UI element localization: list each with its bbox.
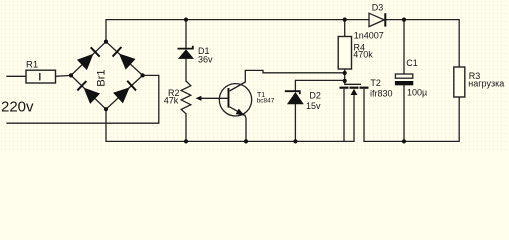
wire bottom rail right to R3 <box>364 97 459 141</box>
node C1 top rail <box>402 18 406 22</box>
svg-text:36v: 36v <box>198 55 213 65</box>
bridge rectifier Br1 diamond <box>71 42 143 110</box>
wire R1 to bridge left node <box>56 74 72 77</box>
wire T1 collector to node A <box>245 70 344 82</box>
svg-text:D2: D2 <box>309 90 321 100</box>
wire node A to node B (R4 bottom) <box>344 69 346 81</box>
resistor R1 <box>26 60 56 84</box>
MOSFET T2 ifr830 <box>340 78 393 141</box>
svg-text:220v: 220v <box>1 98 34 115</box>
wire T1 base to R2 wiper arrow <box>201 97 228 99</box>
transistor T1 bc847 <box>219 82 274 116</box>
svg-text:ifr830: ifr830 <box>370 88 393 98</box>
svg-text:T2: T2 <box>370 78 381 88</box>
bridge diode top-left <box>77 47 100 70</box>
node D2 bottom rail <box>293 139 297 143</box>
svg-text:47k: 47k <box>164 95 179 105</box>
svg-text:bc847: bc847 <box>257 97 275 104</box>
wire C1 top <box>403 20 405 74</box>
node bridge bottom <box>104 107 108 111</box>
node B gate junction <box>343 79 347 83</box>
svg-text:Br1: Br1 <box>96 69 108 86</box>
bridge diode bottom-left <box>77 81 100 104</box>
bridge diode bottom-right <box>113 81 136 104</box>
svg-text:D3: D3 <box>372 3 384 13</box>
resistor R4 470k <box>338 37 373 70</box>
node A collector junction <box>343 71 347 75</box>
capacitor C1 100u electrolytic <box>395 58 427 97</box>
wire D2 to bottom rail <box>294 104 296 141</box>
svg-text:470k: 470k <box>353 50 373 60</box>
node T1 emitter bottom rail <box>244 139 248 143</box>
node bridge right <box>141 73 145 77</box>
wire bridge top to positive top rail <box>106 20 369 42</box>
svg-text:R1: R1 <box>26 60 38 71</box>
wire D1 top <box>185 20 187 49</box>
wire 220v phase to R1 <box>7 75 26 77</box>
svg-text:1n4007: 1n4007 <box>354 31 384 41</box>
zener diode D1 36v <box>178 46 214 65</box>
svg-text:100µ: 100µ <box>407 88 427 98</box>
wire R2 to bottom rail <box>185 114 187 142</box>
resistor R3 load <box>454 67 504 97</box>
potentiometer R2 47k <box>164 81 202 114</box>
wire bridge right corner to 220v neutral stub <box>7 75 159 123</box>
node C1 bottom rail <box>402 139 406 143</box>
node bridge left <box>69 73 73 77</box>
wire T1 emitter to bottom rail <box>245 116 246 142</box>
node D1 top rail <box>184 18 188 22</box>
wire bridge bottom to bottom rail left <box>106 109 354 141</box>
wire T2 gate stub <box>344 81 346 84</box>
node R2 bottom rail <box>184 139 188 143</box>
wire D1 to R2 <box>185 59 187 81</box>
zener diode D2 15v <box>285 90 321 111</box>
wire C1 bottom <box>403 85 405 141</box>
node R4 top rail <box>343 18 347 22</box>
diode D3 1n4007 <box>354 3 386 41</box>
node bridge top <box>104 40 108 44</box>
svg-text:C1: C1 <box>406 58 418 68</box>
wire R4 top to rail <box>344 20 346 37</box>
svg-text:нагрузка: нагрузка <box>468 79 504 89</box>
wire top rail after D3 to R3 corner <box>386 20 459 67</box>
svg-text:15v: 15v <box>306 101 321 111</box>
wire node B to D2 <box>295 80 344 91</box>
bridge diode top-right <box>113 47 136 70</box>
